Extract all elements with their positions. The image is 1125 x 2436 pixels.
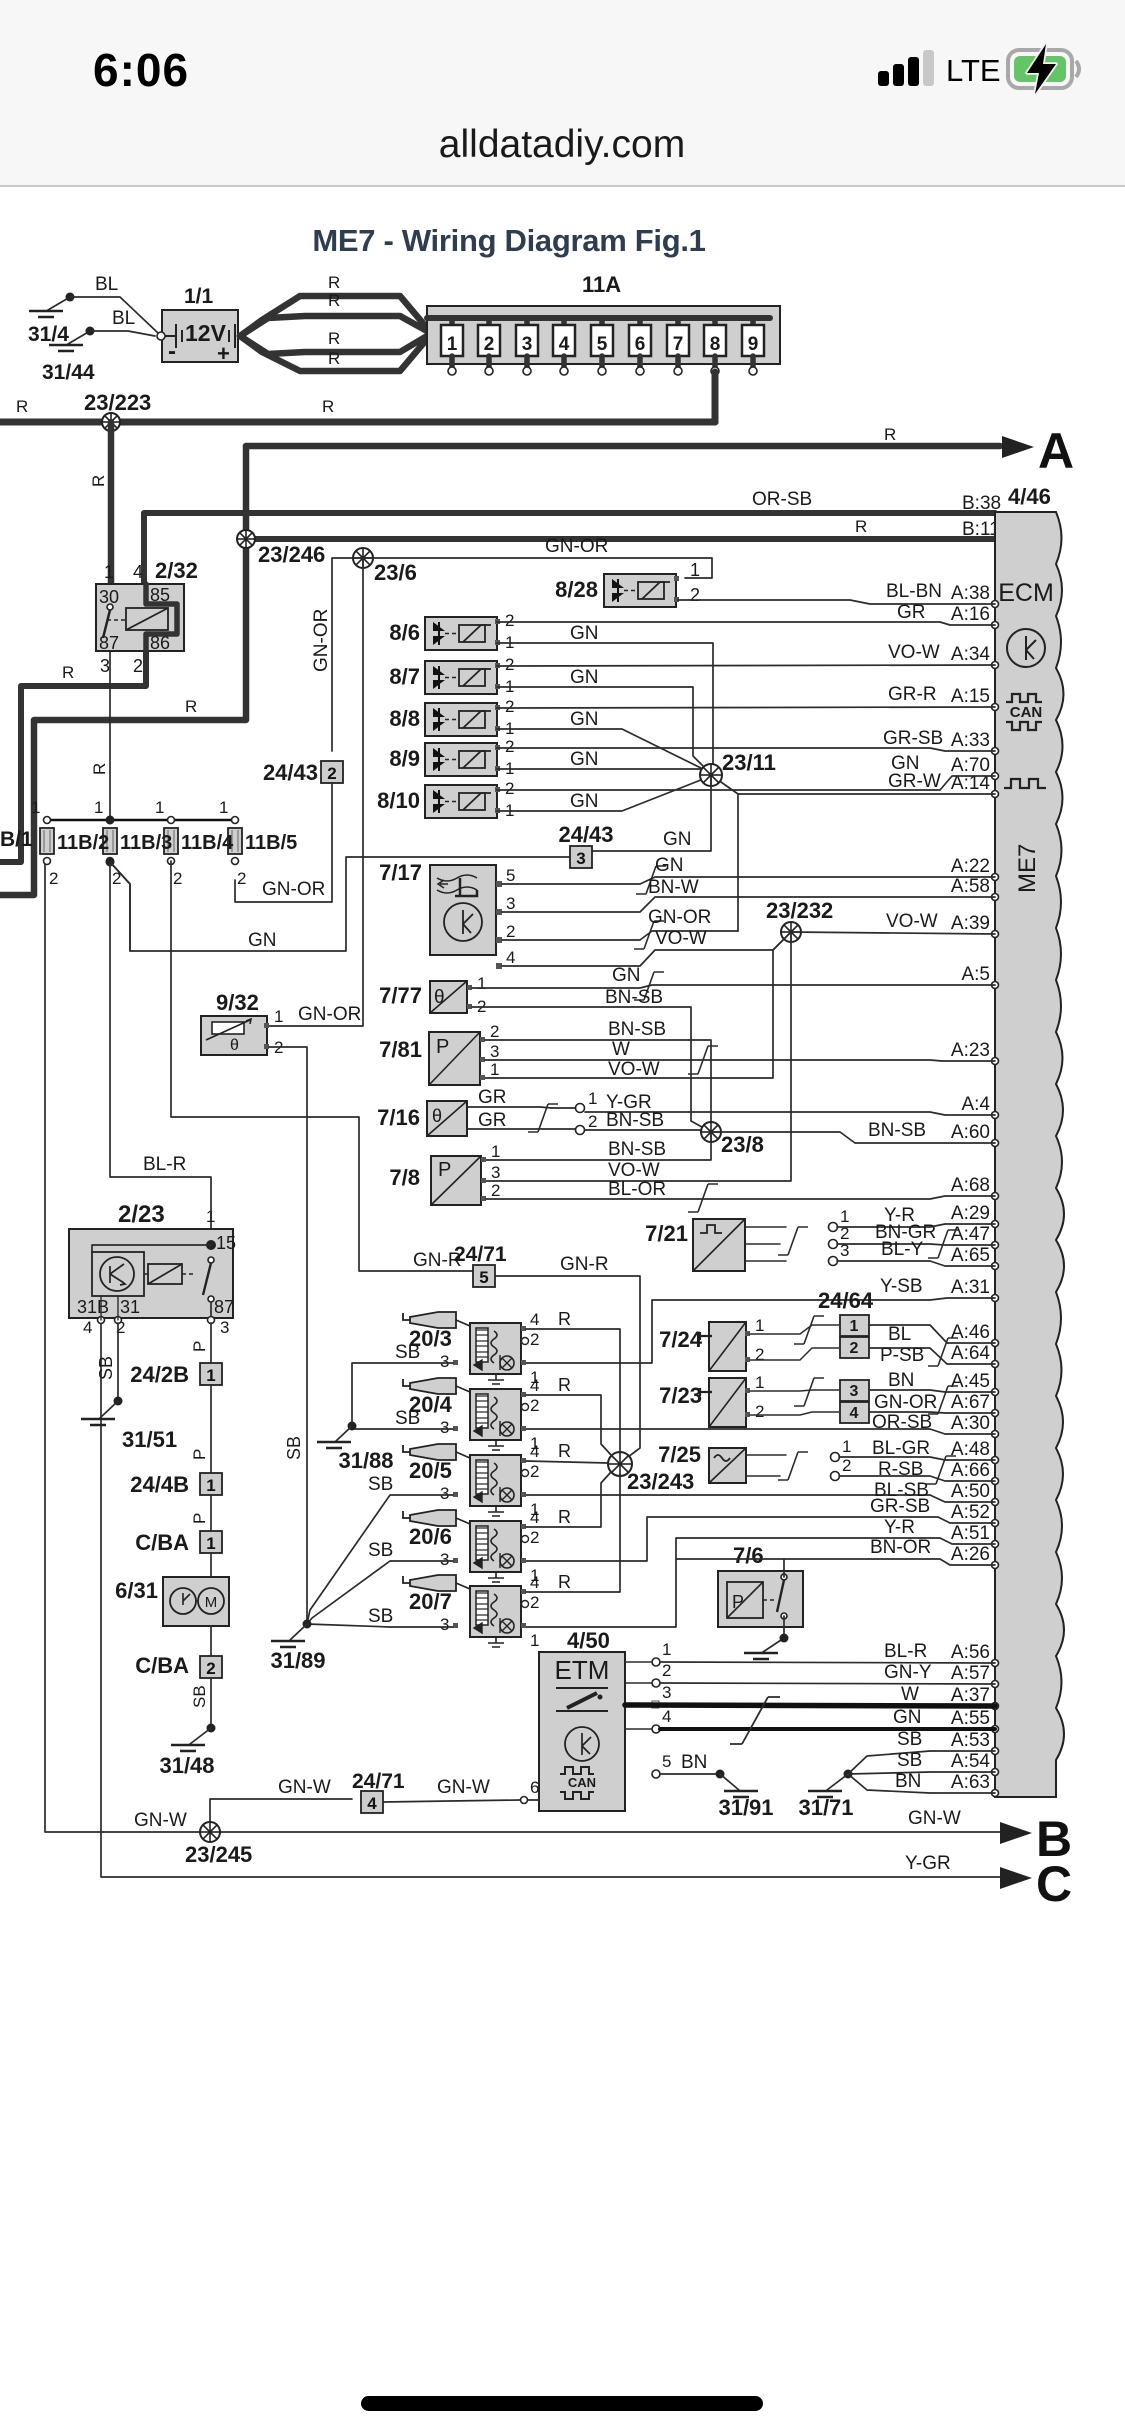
svg-text:2: 2 bbox=[505, 697, 514, 716]
svg-text:8/9: 8/9 bbox=[389, 746, 420, 771]
svg-text:24/4B: 24/4B bbox=[130, 1472, 189, 1497]
wire GN ETM4 to A:55 (thick) bbox=[625, 1728, 652, 1730]
svg-text:BL: BL bbox=[112, 308, 135, 329]
svg-text:A:5: A:5 bbox=[961, 964, 990, 985]
svg-text:θ: θ bbox=[432, 1106, 442, 1126]
svg-text:GN: GN bbox=[570, 667, 599, 688]
svg-text:GN-W: GN-W bbox=[437, 1777, 490, 1798]
wire BN-SB 7/8 pin1 to 23/8 bbox=[484, 1132, 711, 1160]
wire GN 23/11 down to 24/43#3 line bbox=[592, 775, 711, 851]
24/64 pin 3 bbox=[840, 1380, 869, 1401]
svg-text:2/32: 2/32 bbox=[155, 558, 198, 583]
svg-text:15: 15 bbox=[216, 1233, 236, 1253]
svg-text:31/71: 31/71 bbox=[798, 1795, 853, 1820]
svg-text:BL-R: BL-R bbox=[884, 1641, 927, 1662]
svg-text:ME7 - Wiring Diagram Fig.1: ME7 - Wiring Diagram Fig.1 bbox=[312, 223, 705, 258]
wire BL-R ETM1 to A:56 bbox=[625, 1661, 652, 1663]
svg-text:BL: BL bbox=[95, 274, 118, 295]
svg-text:R: R bbox=[89, 475, 108, 487]
svg-text:GR-SB: GR-SB bbox=[883, 728, 943, 749]
arrow B bbox=[1000, 1822, 1032, 1844]
svg-text:R: R bbox=[328, 273, 340, 292]
svg-text:4: 4 bbox=[662, 1707, 671, 1726]
24/64 pin 2 bbox=[840, 1337, 869, 1358]
wire SB 20/6 pin3 to 31/89 bbox=[307, 1561, 453, 1624]
wire R 20/3 pin4 to 23/243 bbox=[526, 1329, 620, 1453]
svg-text:24/43: 24/43 bbox=[558, 822, 613, 847]
svg-text:2: 2 bbox=[505, 779, 514, 798]
svg-text:1: 1 bbox=[755, 1373, 764, 1392]
svg-text:R: R bbox=[90, 763, 109, 775]
svg-text:P-SB: P-SB bbox=[880, 1345, 924, 1366]
svg-text:GN-OR: GN-OR bbox=[874, 1392, 937, 1413]
svg-text:BN-SB: BN-SB bbox=[605, 987, 663, 1008]
svg-text:BN-W: BN-W bbox=[648, 877, 699, 898]
wire R 20/5 pin4 bbox=[526, 1461, 608, 1463]
svg-text:2: 2 bbox=[505, 611, 514, 630]
ground 31/4 bbox=[48, 297, 70, 310]
wire 11B/4 pin2 down to GN-R bbox=[171, 861, 474, 1271]
svg-text:23/223: 23/223 bbox=[84, 390, 151, 415]
svg-text:2: 2 bbox=[690, 585, 700, 605]
thick wire R from relay 86 down-left exits left edge bbox=[0, 651, 146, 862]
fuse 11A:1 bbox=[449, 318, 455, 330]
svg-text:20/6: 20/6 bbox=[409, 1524, 452, 1549]
svg-text:C: C bbox=[1036, 1856, 1072, 1912]
svg-text:31/88: 31/88 bbox=[338, 1448, 393, 1473]
wires 24/64 3,4 to ECM bbox=[869, 1390, 995, 1392]
svg-text:alldatadiy.com: alldatadiy.com bbox=[439, 123, 685, 166]
svg-text:GN-W: GN-W bbox=[908, 1808, 961, 1829]
wire 8/9 pin1 GN to 23/11 bbox=[497, 769, 711, 774]
svg-text:31/51: 31/51 bbox=[122, 1427, 177, 1452]
wire 8/6 pin1 GN down to 23/11 bbox=[497, 643, 713, 765]
wire BN-SB 23/8 to A:60 bbox=[711, 1132, 995, 1143]
spark plug of 20/6 bbox=[403, 1511, 410, 1518]
svg-text:3: 3 bbox=[490, 1042, 499, 1061]
svg-text:A:52: A:52 bbox=[951, 1502, 990, 1523]
svg-text:GN-OR: GN-OR bbox=[648, 907, 711, 928]
svg-text:8/28: 8/28 bbox=[555, 577, 598, 602]
svg-text:1: 1 bbox=[31, 798, 40, 817]
svg-text:1: 1 bbox=[155, 798, 164, 817]
svg-text:W: W bbox=[612, 1039, 630, 1060]
wire VO-W 23/232 down to 7/8 pin3 bbox=[484, 932, 791, 1181]
svg-text:3: 3 bbox=[440, 1352, 449, 1371]
svg-text:2: 2 bbox=[327, 764, 336, 783]
svg-text:A:51: A:51 bbox=[951, 1523, 990, 1544]
svg-text:GN-W: GN-W bbox=[278, 1777, 331, 1798]
svg-text:BN-SB: BN-SB bbox=[608, 1139, 666, 1160]
svg-text:2: 2 bbox=[662, 1661, 671, 1680]
svg-text:1: 1 bbox=[662, 1640, 671, 1659]
svg-text:A:16: A:16 bbox=[951, 604, 990, 625]
svg-text:8/8: 8/8 bbox=[389, 706, 420, 731]
wire BN-W 7/17 pin3 to A:58 bbox=[502, 897, 995, 912]
wire SB 20/3 pin3 to 31/88 bbox=[352, 1363, 453, 1424]
wire BL-SB 20/5 pin1 to A:50 bbox=[522, 1495, 995, 1502]
fuse 11A:7 bbox=[675, 318, 681, 330]
ETM pin 5 bbox=[652, 1770, 660, 1778]
svg-text:31/89: 31/89 bbox=[270, 1648, 325, 1673]
svg-text:GR-W: GR-W bbox=[888, 771, 941, 792]
svg-text:A: A bbox=[1038, 423, 1074, 479]
wire GN-OR 23/6 left to 24/43#2 bbox=[332, 558, 363, 751]
svg-text:2: 2 bbox=[505, 655, 514, 674]
svg-text:1: 1 bbox=[206, 1476, 215, 1495]
svg-text:R: R bbox=[558, 1309, 571, 1329]
wire GR 7/16 pin1 bbox=[467, 1107, 576, 1108]
svg-text:5: 5 bbox=[662, 1752, 671, 1771]
svg-text:2: 2 bbox=[588, 1112, 597, 1131]
wire VO-W 7/17 pin4 to 23/232 bbox=[502, 932, 791, 966]
wire P 2/23 pin87 down through connectors bbox=[210, 1323, 212, 1365]
wire 8/8 pin2 GR-R to A:15 bbox=[497, 707, 995, 708]
svg-text:23/245: 23/245 bbox=[185, 1842, 252, 1867]
wire GN-OR 7/17 pin2 bbox=[502, 931, 738, 940]
svg-text:6/31: 6/31 bbox=[115, 1578, 158, 1603]
wire GN-R 24/71#5 to 23/243 riser bbox=[495, 1276, 640, 1457]
svg-text:1: 1 bbox=[274, 1007, 283, 1026]
wire GN-W 23/245 up to 24/71#4 to ETM pin6 bbox=[210, 1799, 352, 1832]
wire GN-OR 23/6 to 8/28 pin1 bbox=[363, 558, 712, 578]
svg-text:GR: GR bbox=[897, 602, 926, 623]
svg-text:R: R bbox=[558, 1572, 571, 1592]
wire R 20/4 pin4 bbox=[526, 1395, 612, 1456]
svg-text:GN-OR: GN-OR bbox=[298, 1004, 361, 1025]
2/23 coil bbox=[148, 1264, 182, 1284]
wire GR-W 23/11 to A:14 bbox=[711, 775, 995, 794]
svg-text:7/81: 7/81 bbox=[379, 1037, 422, 1062]
svg-text:4: 4 bbox=[530, 1442, 539, 1461]
svg-text:GN: GN bbox=[570, 791, 599, 812]
wire GN 7/17 pin5 to A:22 bbox=[502, 877, 995, 884]
svg-text:A:34: A:34 bbox=[951, 644, 991, 665]
wire R 20/7 pin4 bbox=[526, 1474, 620, 1592]
svg-text:1: 1 bbox=[690, 560, 700, 580]
svg-text:BL: BL bbox=[888, 1324, 911, 1345]
svg-text:1: 1 bbox=[588, 1089, 597, 1108]
svg-text:6: 6 bbox=[635, 334, 646, 355]
svg-text:A:58: A:58 bbox=[951, 876, 990, 897]
svg-text:A:46: A:46 bbox=[951, 1322, 990, 1343]
svg-text:3: 3 bbox=[522, 334, 533, 355]
wire GN-OR 23/6 down to 9/32 pin1 bbox=[268, 558, 363, 1026]
svg-text:A:57: A:57 bbox=[951, 1663, 990, 1684]
svg-text:2: 2 bbox=[530, 1528, 539, 1547]
svg-text:24/64: 24/64 bbox=[818, 1288, 874, 1313]
spark plug of 20/3 bbox=[403, 1313, 410, 1320]
ETM pin 3 bbox=[652, 1701, 659, 1708]
svg-text:9/32: 9/32 bbox=[216, 990, 259, 1015]
svg-text:2: 2 bbox=[490, 1022, 499, 1041]
junction 23/232 bbox=[781, 922, 801, 942]
svg-text:A:53: A:53 bbox=[951, 1730, 990, 1751]
wire 8/10 pin1 GN to 23/11 bbox=[497, 776, 711, 811]
svg-text:3: 3 bbox=[440, 1418, 449, 1437]
svg-text:Y-GR: Y-GR bbox=[905, 1853, 951, 1874]
svg-text:W: W bbox=[901, 1684, 919, 1705]
ground 31/71 fan to A:53 A:54 A:63 bbox=[844, 1770, 853, 1779]
svg-text:R: R bbox=[328, 291, 340, 310]
wire BN-SB 7/77 pin2 to 23/8 bbox=[472, 1007, 711, 1132]
ECM CAN icon bbox=[1006, 694, 1042, 702]
svg-text:P: P bbox=[190, 1341, 209, 1352]
svg-text:4: 4 bbox=[559, 334, 570, 355]
ground 31/51 bbox=[100, 1401, 118, 1418]
wire W 7/81 pin3 to A:23 bbox=[485, 1060, 995, 1061]
svg-text:GN: GN bbox=[893, 1707, 922, 1728]
svg-text:2: 2 bbox=[133, 656, 143, 676]
svg-text:2: 2 bbox=[755, 1345, 764, 1364]
svg-text:SB: SB bbox=[284, 1436, 304, 1460]
svg-text:3: 3 bbox=[491, 1163, 500, 1182]
svg-text:VO-W: VO-W bbox=[655, 928, 707, 949]
svg-text:1: 1 bbox=[104, 562, 114, 582]
wire VO-W 23/232 down to 7/81 pin1 bbox=[484, 932, 791, 1078]
svg-text:8: 8 bbox=[710, 334, 721, 355]
svg-text:ECM: ECM bbox=[998, 579, 1054, 607]
signal bars bbox=[878, 50, 934, 86]
svg-text:GR-SB: GR-SB bbox=[870, 1496, 930, 1517]
svg-text:A:54: A:54 bbox=[951, 1751, 991, 1772]
svg-text:3: 3 bbox=[850, 1383, 859, 1400]
svg-text:9: 9 bbox=[748, 334, 759, 355]
svg-text:GN: GN bbox=[663, 829, 692, 850]
wire SB 2/23 pin31 to ground 31/51 bbox=[117, 1323, 119, 1401]
ground 31/88 bbox=[336, 1426, 352, 1441]
svg-text:R: R bbox=[328, 349, 340, 368]
wire BL-OR 7/8 pin2 to A:68 bbox=[486, 1196, 995, 1199]
svg-text:23/11: 23/11 bbox=[722, 750, 776, 775]
wire GN 24/43#3 left to riser bbox=[110, 857, 570, 951]
7/6 ground bbox=[763, 1616, 784, 1652]
wire bundle R battery to fuse box 11A bbox=[240, 296, 427, 336]
fuse 11A:6 bbox=[637, 318, 643, 330]
svg-text:-: - bbox=[168, 338, 176, 365]
svg-text:GR: GR bbox=[478, 1110, 507, 1131]
svg-text:11B/2: 11B/2 bbox=[57, 832, 109, 854]
svg-text:BN: BN bbox=[888, 1370, 914, 1391]
svg-text:LTE: LTE bbox=[946, 53, 1001, 88]
svg-text:R: R bbox=[62, 663, 74, 682]
svg-text:A:56: A:56 bbox=[951, 1642, 990, 1663]
svg-text:3: 3 bbox=[440, 1615, 449, 1634]
wire R main bus to 23/223 bbox=[0, 419, 715, 426]
fuse 11A:5 bbox=[599, 318, 605, 330]
svg-text:31/48: 31/48 bbox=[159, 1753, 214, 1778]
wire R vertical 23/223 to relay 2/32 pin30 bbox=[108, 422, 115, 584]
svg-text:8/10: 8/10 bbox=[377, 788, 420, 813]
ground 31/48 bbox=[190, 1728, 211, 1744]
svg-text:2: 2 bbox=[842, 1456, 851, 1475]
svg-text:7/16: 7/16 bbox=[377, 1105, 420, 1130]
home indicator bbox=[361, 2396, 763, 2411]
svg-text:Y-SB: Y-SB bbox=[880, 1276, 923, 1297]
svg-text:24/71: 24/71 bbox=[454, 1243, 507, 1266]
svg-text:SB: SB bbox=[897, 1750, 922, 1771]
svg-text:20/7: 20/7 bbox=[409, 1589, 452, 1614]
ETM pin 4 bbox=[652, 1725, 660, 1733]
wire 8/9 pin2 GR-SB to A:33 bbox=[497, 748, 995, 751]
svg-text:7/25: 7/25 bbox=[658, 1442, 701, 1467]
wire BN-SB 7/81 pin2 to 23/8 bbox=[485, 1040, 711, 1132]
svg-text:7: 7 bbox=[673, 334, 684, 355]
fuse 11A:4 bbox=[561, 318, 567, 330]
svg-text:GN-R: GN-R bbox=[560, 1254, 609, 1275]
svg-text:31/91: 31/91 bbox=[718, 1795, 773, 1820]
fuse 11A:8 bbox=[712, 318, 718, 330]
svg-text:SB: SB bbox=[96, 1356, 116, 1380]
wire SB 20/7 pin3 to 31/89 bbox=[307, 1624, 453, 1627]
svg-text:A:26: A:26 bbox=[951, 1544, 990, 1565]
spark plug of 20/4 bbox=[403, 1379, 410, 1386]
wires 24/64 1,2 to ECM bbox=[869, 1325, 995, 1343]
arrow C bbox=[1000, 1867, 1032, 1889]
svg-text:GN-R: GN-R bbox=[413, 1250, 462, 1271]
svg-text:SB: SB bbox=[190, 1685, 209, 1708]
svg-text:BL-R: BL-R bbox=[143, 1154, 186, 1175]
spark plug of 20/7 bbox=[403, 1576, 410, 1583]
relay 2/32 coil loop (thick) bbox=[146, 584, 177, 651]
svg-text:SB: SB bbox=[368, 1540, 393, 1561]
wire SB 20/5 pin3 to 31/89 bbox=[307, 1495, 453, 1624]
svg-text:2/23: 2/23 bbox=[118, 1201, 165, 1228]
svg-text:GN-OR: GN-OR bbox=[545, 536, 608, 557]
svg-text:3: 3 bbox=[576, 849, 585, 868]
wire BL from 31/4 to battery bbox=[70, 297, 158, 333]
svg-text:VO-W: VO-W bbox=[608, 1059, 660, 1080]
2/23 transistor box + K circle bbox=[92, 1252, 144, 1296]
svg-text:A:15: A:15 bbox=[951, 686, 990, 707]
svg-text:2: 2 bbox=[49, 869, 58, 888]
wire 8/10 pin2 GN to A:70 bbox=[497, 776, 995, 790]
svg-text:5: 5 bbox=[479, 1268, 488, 1287]
svg-text:1/1: 1/1 bbox=[184, 285, 214, 308]
svg-text:4: 4 bbox=[530, 1310, 539, 1329]
svg-text:GR-R: GR-R bbox=[888, 684, 937, 705]
wire BL from 31/44 to battery bbox=[90, 331, 155, 336]
ground 31/44 bbox=[68, 331, 90, 344]
svg-text:CAN: CAN bbox=[1010, 704, 1043, 721]
svg-text:+: + bbox=[217, 341, 230, 366]
svg-text:BN-OR: BN-OR bbox=[870, 1537, 931, 1558]
svg-text:23/6: 23/6 bbox=[374, 560, 417, 585]
svg-text:23/243: 23/243 bbox=[627, 1469, 694, 1494]
24/64 pin 4 bbox=[840, 1402, 869, 1423]
svg-text:1: 1 bbox=[206, 1534, 215, 1553]
wire 11B/3 pin2 down (BL-R branch) bbox=[110, 862, 211, 1245]
wire GN 7/77 pin1 to A:5 bbox=[472, 985, 995, 988]
svg-text:1: 1 bbox=[491, 1142, 500, 1161]
svg-text:4: 4 bbox=[530, 1573, 539, 1592]
svg-text:A:63: A:63 bbox=[951, 1772, 990, 1793]
wire GN-W to arrow B bbox=[45, 861, 1000, 1832]
svg-text:2: 2 bbox=[530, 1330, 539, 1349]
wire GR 7/16 pin2 bbox=[467, 1128, 576, 1130]
svg-text:7/24: 7/24 bbox=[659, 1327, 703, 1352]
svg-text:P: P bbox=[190, 1513, 209, 1524]
fuse 11A:9 bbox=[750, 318, 756, 330]
svg-text:GN-W: GN-W bbox=[134, 1810, 187, 1831]
svg-text:2: 2 bbox=[755, 1402, 764, 1421]
svg-text:11A: 11A bbox=[582, 272, 621, 297]
svg-text:BL-BN: BL-BN bbox=[886, 581, 942, 602]
wire 8/7 pin1 GN to 23/11 bbox=[497, 687, 711, 774]
svg-text:3: 3 bbox=[662, 1683, 671, 1702]
svg-text:A:68: A:68 bbox=[951, 1175, 990, 1196]
wire Y-R 20/7 pin1 to A:51 bbox=[522, 1538, 995, 1627]
svg-text:4: 4 bbox=[850, 1405, 859, 1422]
fuse 11A:3 bbox=[524, 318, 530, 330]
svg-text:A:30: A:30 bbox=[951, 1413, 990, 1434]
wire OR-SB B:38 with elbow down to relay coil bbox=[144, 513, 995, 584]
svg-text:3: 3 bbox=[100, 656, 110, 676]
ETM CAN icon bbox=[560, 1767, 594, 1774]
svg-text:3: 3 bbox=[440, 1550, 449, 1569]
relay 2/32 coil box bbox=[126, 608, 168, 630]
wire BN-OR 7/6 to A:26 bbox=[676, 1559, 995, 1565]
thick vertical from A-line through 23/246 down-left exits left edge bbox=[0, 446, 246, 895]
svg-text:2: 2 bbox=[484, 334, 495, 355]
svg-text:2: 2 bbox=[850, 1340, 859, 1357]
svg-text:GR: GR bbox=[478, 1087, 507, 1108]
svg-text:3: 3 bbox=[440, 1484, 449, 1503]
svg-text:1: 1 bbox=[842, 1437, 851, 1456]
wire BN-SB to 23/8 bbox=[585, 1130, 711, 1132]
wire Y-SB 20/3 pin1 to A:31 bbox=[522, 1298, 995, 1363]
svg-text:1: 1 bbox=[850, 1318, 859, 1335]
7/21 pins to ECM bbox=[829, 1223, 838, 1232]
svg-text:SB: SB bbox=[368, 1474, 393, 1495]
svg-text:A:64: A:64 bbox=[951, 1343, 991, 1364]
battery icon bbox=[1008, 44, 1079, 94]
wire VO-W 23/232 to A:39 bbox=[791, 932, 995, 934]
svg-text:ETM: ETM bbox=[555, 1655, 610, 1685]
svg-text:2: 2 bbox=[491, 1181, 500, 1200]
svg-text:8/7: 8/7 bbox=[389, 664, 420, 689]
wire R 20/6 pin4 bbox=[526, 1472, 611, 1527]
svg-text:A:39: A:39 bbox=[951, 913, 990, 934]
svg-text:3: 3 bbox=[220, 1318, 229, 1337]
svg-text:GN: GN bbox=[612, 965, 641, 986]
svg-text:1: 1 bbox=[206, 1366, 215, 1385]
svg-text:A:38: A:38 bbox=[951, 583, 990, 604]
svg-text:2: 2 bbox=[505, 737, 514, 756]
wire SB 20/4 pin3 to 31/88 bbox=[352, 1428, 453, 1430]
svg-text:GN: GN bbox=[248, 930, 277, 951]
wire OR-SB 20/4 pin1 to A:30 bbox=[522, 1429, 995, 1434]
svg-text:VO-W: VO-W bbox=[888, 642, 940, 663]
svg-text:R-SB: R-SB bbox=[878, 1459, 923, 1480]
svg-text:SB: SB bbox=[368, 1606, 393, 1627]
relay 2/32 switch bbox=[107, 604, 113, 610]
svg-text:24/71: 24/71 bbox=[352, 1770, 405, 1793]
wire R B:11 through 23/246 bbox=[246, 536, 995, 542]
svg-text:GN: GN bbox=[570, 623, 599, 644]
svg-text:7/21: 7/21 bbox=[645, 1221, 688, 1246]
2/23 switch bbox=[208, 1257, 214, 1263]
svg-text:A:48: A:48 bbox=[951, 1439, 990, 1460]
svg-text:5: 5 bbox=[597, 334, 608, 355]
svg-text:R: R bbox=[185, 697, 197, 716]
junction 23/8 bbox=[701, 1122, 721, 1142]
arrow A bbox=[1002, 436, 1034, 458]
svg-text:8/6: 8/6 bbox=[389, 620, 420, 645]
wire GN-OR 24/43#2 down to 11B/5 bbox=[235, 783, 332, 902]
svg-text:6: 6 bbox=[530, 1778, 539, 1797]
svg-text:R: R bbox=[16, 397, 28, 416]
